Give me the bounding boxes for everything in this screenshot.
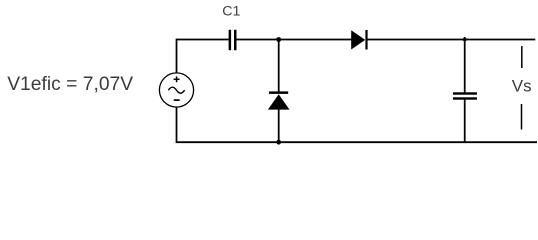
capacitor C1 right plate (234, 30, 237, 50)
svg-text:V1efic = 7,07V: V1efic = 7,07V (7, 74, 133, 95)
diode D2 triangle (pointing up) (268, 94, 290, 109)
wire left vertical above source (176, 39, 178, 74)
AC source sine wave (168, 87, 184, 93)
wire bottom segment (177, 141, 538, 143)
junction node at output capacitor top (463, 38, 467, 42)
wire top-left segment (source to C1) (177, 39, 229, 41)
Vs port top terminal dash (521, 46, 523, 68)
svg-text:C1: C1 (222, 3, 240, 19)
wire vertical from output capacitor to bottom wire (464, 100, 466, 143)
AC source minus sign (174, 99, 180, 101)
AC source plus sign (174, 76, 180, 82)
wire left vertical below source (176, 107, 178, 144)
junction node bottom (276, 140, 281, 145)
output capacitor top plate (453, 92, 477, 94)
wire vertical from top junction down to diode D2 (278, 40, 280, 93)
wire top-right segment (diode D1 to right end) (366, 39, 535, 41)
wire top-middle segment (C1 to diode D1) (236, 39, 351, 41)
Vs port bottom terminal dash (521, 104, 523, 130)
capacitor C1 left plate (229, 30, 232, 50)
svg-text:Vs: Vs (512, 77, 532, 96)
wire vertical from top wire to output capacitor (464, 37, 466, 93)
junction node top (C1 output / D2 anode branch) (276, 37, 281, 42)
output capacitor bottom plate (453, 97, 477, 99)
diode D1 triangle (pointing right) (351, 30, 365, 49)
AC source V1 circle (159, 73, 193, 107)
wire vertical from diode D2 to bottom wire (278, 109, 280, 142)
diode D1 cathode bar (vertical) (365, 30, 367, 50)
diode D2 cathode bar (horizontal) (269, 91, 288, 94)
